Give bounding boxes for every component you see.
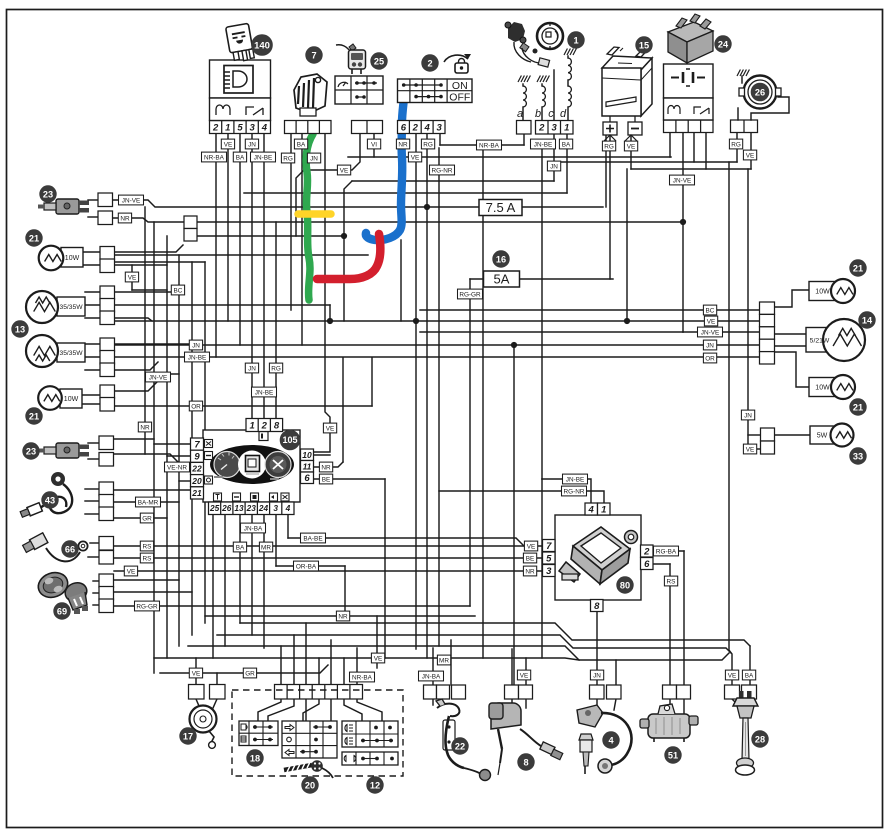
label BA-MR <box>136 497 161 507</box>
label VE <box>743 150 756 160</box>
rear brake switch 22 icon <box>436 699 491 781</box>
label NR-BA <box>350 672 375 682</box>
label BA <box>559 139 572 149</box>
starter relay 24 coil contact section <box>664 98 714 120</box>
coil b <box>542 86 545 107</box>
connector starter relay 24 <box>664 120 714 133</box>
connector headlamp 13b <box>100 338 115 377</box>
wire jog <box>329 305 331 321</box>
svg-text:NR: NR <box>525 568 535 575</box>
wire trunk JN-BE to cluster2 <box>263 133 265 419</box>
connector stop switch 23 <box>98 193 113 225</box>
label JN <box>245 139 258 149</box>
label RG <box>421 139 434 149</box>
wire horn ground lead <box>741 76 743 83</box>
flywheel magneto 1 icon <box>505 22 563 67</box>
wire NR bus low <box>205 615 475 617</box>
svg-text:5A: 5A <box>494 272 510 287</box>
connector cable 43 <box>99 482 114 521</box>
label BA-BE <box>301 533 326 543</box>
wire cl4 <box>287 515 289 538</box>
svg-text:OFF: OFF <box>449 92 470 104</box>
svg-text:3: 3 <box>552 123 558 134</box>
label JN-BE <box>252 387 277 397</box>
svg-text:21: 21 <box>29 233 39 243</box>
wire RS cdi <box>653 563 670 565</box>
svg-text:16: 16 <box>496 254 506 264</box>
svg-text:BA: BA <box>297 141 306 148</box>
svg-text:5: 5 <box>546 553 552 564</box>
wire bc3 <box>305 623 307 685</box>
wire trunk low2 <box>541 546 543 658</box>
wire stop switch stub <box>88 216 98 218</box>
wire lamp feed r4 <box>774 352 809 387</box>
badge 15 <box>636 37 652 53</box>
label RG <box>281 153 294 163</box>
connector flasher 25 <box>352 121 383 134</box>
svg-text:69: 69 <box>57 606 67 616</box>
label NR <box>336 611 349 621</box>
wire socket stub <box>93 580 99 582</box>
svg-text:10: 10 <box>302 450 312 460</box>
wire socket stub <box>93 604 99 606</box>
svg-text:22: 22 <box>191 464 202 474</box>
wire BC bus <box>420 309 759 311</box>
connector magneto pins 2 3 1 <box>536 121 574 135</box>
svg-text:JN-VE: JN-VE <box>122 197 140 204</box>
badge 21 <box>850 260 866 276</box>
wire mag d BA <box>566 134 568 193</box>
svg-text:22: 22 <box>455 741 465 751</box>
wire trunk RG box7 <box>290 133 292 310</box>
connector HT coil 8 <box>505 685 533 699</box>
svg-text:9: 9 <box>194 452 200 463</box>
badge 22 <box>452 738 468 754</box>
svg-text:JN: JN <box>706 342 714 349</box>
red highlighted wire <box>317 234 380 279</box>
svg-text:24: 24 <box>258 503 269 513</box>
speedometer cable 43 icon <box>20 472 72 517</box>
label VE <box>517 670 530 680</box>
wire pin20 <box>179 480 190 482</box>
svg-text:RG-BA: RG-BA <box>656 548 677 555</box>
junction <box>327 318 333 324</box>
svg-text:RG: RG <box>271 365 281 372</box>
lamp 5/21W right <box>806 319 865 361</box>
wire VE horn link <box>631 168 751 170</box>
connector rear brake 22b <box>452 685 466 699</box>
wire to switch18 a <box>258 699 281 721</box>
svg-text:NR: NR <box>338 613 348 620</box>
svg-text:BE: BE <box>322 476 331 483</box>
label RS <box>664 576 677 586</box>
svg-text:VE: VE <box>728 672 737 679</box>
wire bus to relay <box>197 221 683 223</box>
cluster left indicator icons <box>205 440 213 485</box>
CDI pin 6 <box>641 558 654 570</box>
badge 13 <box>12 321 28 337</box>
wire socket stub <box>93 592 99 594</box>
label JN <box>189 340 202 350</box>
badge 140 <box>252 35 273 56</box>
connector socket 69 <box>99 574 114 613</box>
badge 33 <box>850 448 866 464</box>
label JN-BA <box>419 671 444 681</box>
label MR <box>259 542 272 552</box>
wire NR down <box>344 566 346 616</box>
key switch 2 box ON OFF <box>398 79 473 104</box>
yellow highlight marker <box>298 210 331 218</box>
svg-text:JN: JN <box>248 365 256 372</box>
wire relay JN-VE <box>682 132 684 332</box>
wire OR bus <box>112 405 372 407</box>
svg-text:JN-BE: JN-BE <box>566 476 584 483</box>
connector stop switch 23b <box>99 436 114 466</box>
label VE <box>323 423 336 433</box>
svg-text:17: 17 <box>183 731 193 741</box>
label VE <box>725 670 738 680</box>
fuel sensor 28 icon <box>733 691 758 775</box>
wire VE/NR to CDI3 <box>114 570 542 572</box>
svg-text:BE: BE <box>526 555 535 562</box>
wire c to pin <box>553 70 555 120</box>
wire 5A fuse line <box>470 278 613 280</box>
turn signal switch block 20 <box>282 721 337 758</box>
horn 17 icon <box>190 706 217 749</box>
wire brake sw2 b VE-NR <box>112 454 192 467</box>
label JN-VE <box>670 175 695 185</box>
light switch block 12 <box>342 721 398 765</box>
svg-text:2: 2 <box>212 122 219 133</box>
wire VE bus <box>112 320 759 322</box>
wire to switch12 a <box>344 699 362 721</box>
wire trunk L3 <box>178 255 180 646</box>
svg-text:10W: 10W <box>64 396 79 403</box>
battery terminal + <box>603 122 617 135</box>
wire horn RG <box>736 132 738 162</box>
ground b <box>537 76 549 83</box>
junction <box>624 318 630 324</box>
svg-text:JN-BE: JN-BE <box>254 154 272 161</box>
label RS <box>140 553 153 563</box>
label GR <box>243 668 256 678</box>
svg-text:JN: JN <box>310 155 318 162</box>
svg-text:VI: VI <box>371 141 377 148</box>
wire lamp feed r2 <box>774 333 806 335</box>
svg-text:VE: VE <box>527 543 536 550</box>
wire BE down <box>384 479 386 658</box>
wire pin21 <box>114 489 190 491</box>
label JN-VE <box>698 327 723 337</box>
wire trunk JN-BE low <box>541 479 543 546</box>
CDI unit 80 box <box>555 515 641 600</box>
svg-text:66: 66 <box>65 544 75 554</box>
wire lamp feed 2 <box>112 264 167 266</box>
wire trunk BA box7 <box>301 133 303 345</box>
wire coil a to pin <box>522 107 524 120</box>
cluster bottom indicator icons <box>214 493 290 501</box>
label BA <box>233 542 246 552</box>
svg-text:4: 4 <box>261 122 268 133</box>
svg-text:VE: VE <box>224 141 233 148</box>
label NR <box>118 213 131 223</box>
svg-text:7: 7 <box>311 50 316 60</box>
svg-text:JN-BE: JN-BE <box>188 354 206 361</box>
label VE <box>743 444 756 454</box>
svg-text:25: 25 <box>374 56 384 66</box>
label VE <box>124 566 137 576</box>
power socket 69 icon <box>35 569 90 614</box>
badge 21 <box>26 230 42 246</box>
lamp 10W right bottom <box>809 375 855 399</box>
connector lamp 21b <box>100 385 115 411</box>
wire to switch20 c <box>330 699 332 721</box>
wire coil b lead <box>541 84 543 86</box>
connector <box>191 487 204 499</box>
CDI pin 5 <box>543 552 556 564</box>
blue highlighted wire <box>366 98 404 240</box>
wire mag c JN <box>553 134 555 181</box>
svg-text:6: 6 <box>304 473 310 484</box>
svg-text:b: b <box>535 108 541 120</box>
svg-text:80: 80 <box>620 580 630 590</box>
wire trunk JN to cluster1 <box>251 133 253 419</box>
wire stack link b <box>748 448 760 450</box>
badge 18 <box>247 750 263 766</box>
wire headlamp2 <box>112 343 192 345</box>
wire headlamp stub <box>85 304 100 306</box>
wire socket b <box>114 591 192 593</box>
wire lamp stub <box>82 403 100 405</box>
wire valve stub b <box>683 699 685 714</box>
label VE <box>704 316 717 326</box>
wire VE flasher <box>296 133 360 236</box>
cluster 105 dial drawing <box>210 432 294 485</box>
pickup 4 icon with spark plug <box>577 705 632 774</box>
svg-text:JN-VE: JN-VE <box>673 177 691 184</box>
cable 66 icon <box>23 533 88 562</box>
flasher 25 icon <box>336 44 366 74</box>
svg-text:OR-BA: OR-BA <box>296 563 317 570</box>
connector key switch 2 pins 6 2 4 3 <box>398 121 446 134</box>
connector pickup 4a <box>590 685 605 699</box>
connector horn 26 <box>731 120 758 133</box>
wire RS/BE to CDI5 <box>114 557 542 559</box>
battery lead joints <box>604 135 637 141</box>
instrument cluster 105 box <box>203 430 300 502</box>
svg-text:1: 1 <box>573 35 578 45</box>
svg-text:NR: NR <box>120 215 130 222</box>
wire NR-BA link <box>440 144 524 146</box>
wire trunk RG-GR <box>469 279 471 606</box>
connector <box>191 475 204 487</box>
svg-text:ON: ON <box>452 80 468 92</box>
badge 14 <box>859 312 875 328</box>
svg-text:NR: NR <box>140 424 150 431</box>
label JN <box>547 161 560 171</box>
wire comp8 a <box>511 649 513 685</box>
wire BA bus top <box>244 192 567 194</box>
svg-text:8: 8 <box>594 601 600 612</box>
svg-text:7: 7 <box>194 440 200 451</box>
svg-text:13: 13 <box>234 503 244 513</box>
wire brake sw2 a <box>112 438 154 440</box>
label BA <box>294 139 307 149</box>
connector <box>246 419 283 432</box>
svg-text:a: a <box>517 108 523 120</box>
wire batt+ to 5A <box>609 135 611 279</box>
label VE <box>408 152 421 162</box>
wire RG-BA to valve <box>683 551 685 685</box>
wire horn GR stub <box>216 673 218 685</box>
coil a <box>523 86 526 107</box>
badge 105 <box>280 430 300 450</box>
wire batt- VE <box>630 135 632 169</box>
label OR-BA <box>294 561 319 571</box>
svg-text:28: 28 <box>755 734 765 744</box>
battery 15 icon <box>602 47 652 122</box>
wire bus short <box>112 261 205 263</box>
connector sensor 28b <box>742 685 757 699</box>
wire bc5 <box>330 640 332 685</box>
dashed group box <box>232 690 403 776</box>
CDI pin 7 <box>543 540 556 552</box>
CDI pin 8 <box>591 600 604 612</box>
label JN-VE <box>146 372 171 382</box>
connector pickup 4b <box>607 685 622 699</box>
svg-text:5: 5 <box>237 122 243 133</box>
relay 140 coil and contact section <box>210 98 271 121</box>
label VE <box>624 141 637 151</box>
label VI <box>367 139 380 149</box>
svg-text:3: 3 <box>273 503 278 513</box>
badge 28 <box>752 731 768 747</box>
badge 51 <box>665 747 681 763</box>
CDI pin 3 <box>543 565 556 577</box>
fuse 5A <box>484 271 520 287</box>
svg-text:OR: OR <box>191 403 201 410</box>
svg-text:43: 43 <box>45 495 55 505</box>
wire lamp feed <box>112 245 183 252</box>
label RG-GR <box>135 601 160 611</box>
svg-text:23: 23 <box>246 503 257 513</box>
label BA <box>233 152 246 162</box>
svg-text:NR-BA: NR-BA <box>352 674 373 681</box>
svg-text:1: 1 <box>601 504 606 515</box>
wire relay p3 <box>693 132 695 162</box>
badge 2 <box>422 55 438 71</box>
wire RG-BA <box>653 550 684 552</box>
badge 21 <box>26 408 42 424</box>
wire pin7 <box>154 443 190 445</box>
label RG-NR <box>430 165 455 175</box>
badge 66 <box>62 541 78 557</box>
wire horn VE lead <box>751 97 789 120</box>
svg-text:13: 13 <box>15 324 25 334</box>
svg-text:JN-BA: JN-BA <box>244 525 263 532</box>
wire coil d to pin <box>567 107 569 120</box>
junction <box>511 342 517 348</box>
wire headlamp stub <box>85 369 100 371</box>
label RG <box>602 141 615 151</box>
svg-text:JN: JN <box>550 163 558 170</box>
label JN <box>703 340 716 350</box>
badge 25 <box>371 53 387 69</box>
wire cable43 stub <box>85 500 99 502</box>
lamp 10W left bottom <box>38 386 82 410</box>
svg-text:BA-MR: BA-MR <box>138 499 159 506</box>
connector horn 17 <box>189 685 226 700</box>
wire cable66 stub <box>90 542 99 544</box>
svg-text:JN: JN <box>744 412 752 419</box>
svg-text:RG-GR: RG-GR <box>459 291 481 298</box>
wire trunk L2 <box>166 236 168 658</box>
svg-text:RG-NR: RG-NR <box>564 488 585 495</box>
svg-text:JN: JN <box>593 672 601 679</box>
wire bottom bus 1 <box>240 623 750 646</box>
wire horn17 stub a <box>196 699 199 706</box>
label JN-BE <box>251 152 276 162</box>
wire pickup stub b <box>614 699 616 710</box>
badge 26 <box>751 83 769 101</box>
svg-text:MR: MR <box>261 544 271 551</box>
badge 23 <box>23 443 39 459</box>
connector sensor 28a <box>725 685 740 699</box>
junction <box>341 233 347 239</box>
svg-text:BC: BC <box>706 307 715 314</box>
svg-text:RG: RG <box>423 141 433 148</box>
wire coil d lead <box>567 56 569 58</box>
switch block 18 <box>239 721 278 746</box>
headlight icon in 140 <box>224 66 253 94</box>
label OR <box>703 353 716 363</box>
badge 20 <box>302 777 318 793</box>
label RG-GR <box>458 289 483 299</box>
svg-text:2: 2 <box>643 546 650 557</box>
svg-text:NR: NR <box>321 464 331 471</box>
wire cl23 <box>251 515 253 635</box>
svg-text:VE: VE <box>128 274 137 281</box>
wire cl3 <box>275 515 277 566</box>
CDI pin 1 <box>598 503 611 515</box>
wire right BA to sensor <box>749 646 751 685</box>
wire trunk JN mid <box>513 345 515 685</box>
coil d upper <box>568 58 571 80</box>
svg-text:MR: MR <box>439 657 449 664</box>
label BC <box>703 305 716 315</box>
wire cable43 stub <box>85 513 99 515</box>
svg-text:105: 105 <box>282 435 297 445</box>
svg-text:3: 3 <box>546 566 552 577</box>
wire JN-VE to stack <box>683 331 759 333</box>
wire pin11 NR <box>313 462 343 467</box>
wire headlamp stub <box>85 343 100 345</box>
wire CDI8 to pickup <box>596 612 598 685</box>
label VE <box>221 139 234 149</box>
wire OR-BA <box>276 565 345 567</box>
CDI pin 2 <box>641 545 654 557</box>
wire trunk VE key <box>415 133 417 649</box>
wire pin6 BE <box>313 478 385 480</box>
junction stack right small <box>761 428 775 454</box>
connector <box>191 450 204 463</box>
stop switch 23b icon <box>38 443 89 458</box>
wire stop switch2 stub <box>88 442 99 444</box>
wire VE key bus <box>348 156 671 158</box>
key turn arrow icon <box>444 54 471 73</box>
svg-text:10W: 10W <box>65 255 80 262</box>
wire bus <box>112 254 368 256</box>
